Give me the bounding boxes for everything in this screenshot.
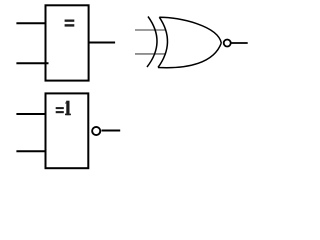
wire U2 output xyxy=(231,42,247,44)
wire U1 input A xyxy=(16,22,45,24)
wire U2 input A xyxy=(135,29,166,31)
wire U3 input A xyxy=(16,113,45,115)
gate U2 output bubble xyxy=(224,40,231,47)
wire U2 input B xyxy=(135,53,166,55)
wire U3 input B xyxy=(16,150,45,152)
gate U1 (IEC XNOR, '=' label) body xyxy=(46,5,89,80)
gate U3 output bubble xyxy=(92,127,100,135)
wire U1 output xyxy=(89,42,116,44)
gate U3 value label '=1' xyxy=(56,101,71,116)
wire U3 output xyxy=(102,130,121,132)
gate U1 value label '=' xyxy=(65,20,75,27)
gate U2 body outline xyxy=(158,17,221,68)
gate U3 (IEC XOR '=1' with inverted output) body xyxy=(46,93,89,168)
wire U1 input B xyxy=(16,62,48,64)
gate U2 (XNOR distinctive shape) extra input arc xyxy=(147,17,157,68)
